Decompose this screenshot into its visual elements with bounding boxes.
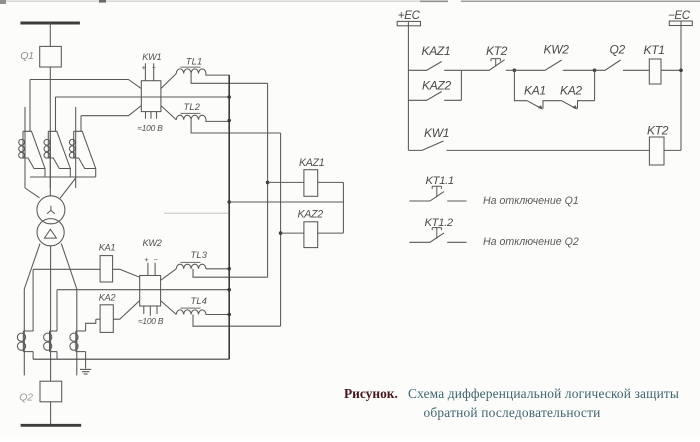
svg-text:KAZ2: KAZ2: [298, 209, 324, 221]
svg-text:KAZ1: KAZ1: [299, 157, 324, 169]
svg-text:+EC: +EC: [398, 10, 421, 22]
svg-text:Схема дифференциальной логичес: Схема дифференциальной логической защиты: [408, 386, 679, 401]
svg-text:TL2: TL2: [184, 102, 201, 112]
svg-text:KA1: KA1: [99, 243, 116, 253]
svg-text:Q2: Q2: [19, 391, 33, 403]
svg-text:−: −: [154, 255, 158, 264]
svg-text:KT2: KT2: [647, 124, 669, 138]
svg-text:+: +: [144, 255, 148, 264]
svg-text:KA2: KA2: [99, 292, 116, 302]
svg-text:KT2: KT2: [486, 44, 508, 58]
svg-text:KW2: KW2: [544, 42, 570, 56]
svg-text:≈100 В: ≈100 В: [137, 123, 163, 133]
svg-text:KT1.1: KT1.1: [426, 175, 454, 187]
svg-text:На отключение Q1: На отключение Q1: [483, 195, 579, 207]
svg-text:KA1: KA1: [524, 84, 546, 98]
svg-text:KW2: KW2: [143, 238, 162, 248]
svg-text:KAZ2: KAZ2: [422, 79, 451, 93]
svg-text:≈100 В: ≈100 В: [138, 316, 164, 326]
svg-text:KW1: KW1: [142, 52, 161, 62]
svg-text:+: +: [142, 63, 146, 72]
svg-text:KT1: KT1: [644, 43, 665, 57]
svg-text:Рисунок.: Рисунок.: [344, 386, 398, 401]
svg-text:TL1: TL1: [186, 57, 203, 67]
svg-text:KAZ1: KAZ1: [422, 44, 451, 58]
svg-text:TL3: TL3: [191, 250, 208, 260]
svg-text:На отключение Q2: На отключение Q2: [483, 236, 579, 248]
svg-text:обратной последовательности: обратной последовательности: [423, 405, 600, 420]
svg-text:−EC: −EC: [668, 10, 691, 22]
svg-text:−: −: [152, 63, 156, 72]
svg-text:KW1: KW1: [424, 126, 449, 140]
svg-text:Q1: Q1: [20, 50, 34, 62]
svg-text:Q2: Q2: [610, 43, 626, 57]
svg-text:TL4: TL4: [191, 296, 208, 306]
svg-text:KA2: KA2: [560, 84, 582, 98]
